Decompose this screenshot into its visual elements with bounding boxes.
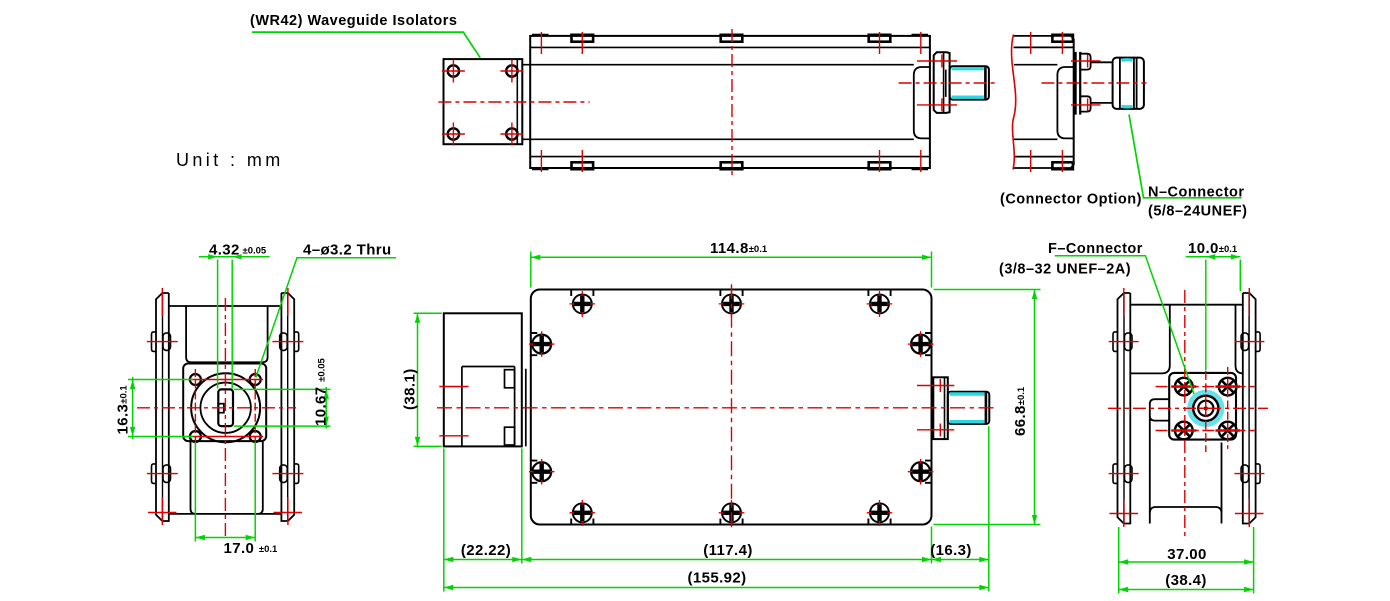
connector center mark: [1198, 401, 1213, 416]
ear top-right slot: [280, 333, 288, 351]
svg-text:(Connector Option): (Connector Option): [1000, 192, 1142, 208]
right view ear TL slot: [1125, 333, 1133, 351]
svg-text:4.32: 4.32: [209, 242, 240, 259]
screw top1: [570, 290, 596, 318]
N connector stem: [1091, 62, 1113, 103]
body plan outline: [531, 290, 932, 525]
top web: [169, 305, 282, 307]
dim 4.32 extension lines: [218, 260, 233, 389]
option rail tab top: [1052, 35, 1073, 42]
connector marks plan: [917, 379, 954, 437]
arrows 38.1: [415, 313, 420, 323]
barrel end plan: [985, 393, 988, 423]
rail end marks: [162, 288, 288, 525]
right view right rail: [1243, 293, 1256, 524]
rail tab 2 top: [721, 35, 743, 42]
svg-text:N–Connector: N–Connector: [1148, 185, 1245, 201]
bolt row centerlines: [188, 380, 263, 437]
end cap: [914, 67, 930, 138]
screw top3: [867, 290, 893, 318]
flange face line: [462, 367, 515, 447]
lower body right edge: [1221, 443, 1223, 524]
flange bolt bottom-left: [448, 128, 459, 139]
cyan thread plan top: [950, 392, 985, 395]
dim 114.8: [531, 252, 932, 288]
bottom web: [169, 513, 282, 515]
F connector barrel end: [984, 67, 987, 98]
N connector nut lines: [1120, 58, 1137, 109]
dim line 155.92: [444, 587, 989, 589]
N cyan highlight top: [1121, 58, 1132, 62]
arrows 114.8: [531, 255, 541, 260]
dim 37.00 and 38.4: [1119, 527, 1254, 594]
right view ear BL bump: [1113, 464, 1118, 484]
ear bottom-right bump: [294, 464, 299, 484]
flange marks plan: [439, 387, 468, 436]
arrows 155.92: [444, 585, 454, 590]
screw bottom3: [867, 500, 893, 526]
waveguide aperture: [218, 389, 233, 426]
plan vertical centerline: [731, 284, 733, 531]
F connector flange step: [944, 52, 946, 113]
arrows 16.3: [130, 380, 135, 390]
svg-text:Unit : mm: Unit : mm: [176, 150, 284, 170]
F connector inner circle: [1198, 401, 1213, 416]
ear top-right bump: [294, 332, 299, 352]
svg-text:10.67 ±0.05: 10.67 ±0.05: [313, 357, 330, 426]
leader 4-dia3.2: [256, 258, 396, 378]
right view ear BL slot: [1125, 465, 1133, 483]
arrows 17.0: [195, 535, 205, 540]
N cyan highlight bottom: [1121, 105, 1132, 109]
screw bottom1: [570, 500, 596, 526]
rail tab 3 top: [869, 35, 891, 42]
waveguide flange square: [183, 364, 266, 442]
plan main axis: [437, 407, 996, 409]
rail tab 3 bottom: [869, 162, 891, 169]
ear bottom-right slot: [280, 465, 288, 483]
screw rows: [1156, 387, 1255, 431]
svg-text:4–ø3.2 Thru: 4–ø3.2 Thru: [303, 242, 392, 259]
option flange marks: [1071, 55, 1101, 112]
flange screw BL: [1175, 422, 1193, 440]
rail foot marks: [148, 512, 302, 514]
leader F-Connector: [1055, 256, 1194, 394]
flange bolt top-right: [506, 65, 517, 76]
rail end lips: [532, 35, 928, 169]
option connector axis: [1041, 82, 1146, 84]
arrows 10.0: [1206, 254, 1216, 259]
leader line N-Connector: [1129, 115, 1242, 198]
connector flange marks: [917, 55, 957, 112]
svg-text:(155.92): (155.92): [687, 570, 746, 587]
flange tab lower: [505, 427, 515, 445]
flange bolt hole TL: [190, 374, 201, 385]
right view left rail mid: [1123, 294, 1125, 524]
flange screw TR: [1219, 378, 1237, 396]
svg-text:(38.4): (38.4): [1165, 572, 1207, 589]
centerline waveguide axis: [438, 101, 589, 103]
left rail: [156, 293, 169, 521]
dim 10.0: [1186, 257, 1241, 371]
neck to body: [522, 65, 530, 140]
bolt column centerlines: [195, 369, 255, 446]
dim 17.0: [195, 442, 255, 542]
ear top-left slot: [163, 333, 171, 351]
screw right-upper: [908, 331, 934, 357]
right view horizontal centerline: [1108, 407, 1268, 409]
F connector barrel: [950, 66, 989, 99]
svg-text:(16.3): (16.3): [930, 542, 972, 559]
bolt cross marks flange: [442, 60, 524, 146]
body outline with rails: [530, 36, 930, 168]
screw left-lower: [529, 459, 555, 485]
F connector barrel plan: [948, 392, 990, 424]
right view rail end marks: [1124, 288, 1250, 527]
svg-text:(WR42) Waveguide Isolators: (WR42) Waveguide Isolators: [250, 13, 457, 29]
svg-text:114.8±0.1: 114.8±0.1: [710, 240, 768, 257]
F connector flange step plan: [944, 377, 946, 439]
svg-text:±0.05: ±0.05: [243, 246, 267, 257]
arrows 16.3 plan: [932, 557, 942, 562]
screw right-lower: [908, 459, 934, 485]
arrows 10.67: [324, 389, 329, 399]
body top/bottom lines: [530, 65, 914, 140]
left view vertical centerline: [224, 298, 226, 536]
option end cap: [1057, 67, 1073, 138]
rail tab 1 top: [572, 35, 594, 42]
right view left rail: [1118, 293, 1131, 524]
centerline body vertical: [731, 29, 733, 175]
break line: [1012, 35, 1016, 170]
right view rail foot marks: [1110, 513, 1264, 515]
lower body box: [191, 441, 263, 514]
right view ear TR slot: [1241, 333, 1249, 351]
right view ear BR slot: [1241, 465, 1249, 483]
arrows 4.32: [208, 254, 218, 259]
flange bolt bottom-right: [506, 128, 517, 139]
screw center bold marks: [1172, 387, 1241, 431]
ridge notch: [218, 404, 224, 413]
right rail: [281, 293, 294, 521]
right view top web: [1130, 304, 1243, 306]
cyan thread highlight top: [952, 67, 984, 70]
svg-text:(22.22): (22.22): [461, 542, 511, 559]
svg-text:(117.4): (117.4): [703, 542, 753, 559]
screw column right: [1227, 367, 1229, 449]
right view ear marks: [1109, 342, 1265, 474]
dim 38.1: [414, 313, 442, 446]
option right edge: [1073, 39, 1075, 165]
svg-text:F–Connector: F–Connector: [1048, 241, 1143, 257]
connector vertical centerline: [1205, 371, 1207, 452]
flange bolt hole TR: [250, 374, 261, 385]
left flange side view: [444, 313, 522, 446]
svg-text:(5/8–24UNEF): (5/8–24UNEF): [1148, 204, 1247, 220]
right view ear BR bump: [1256, 464, 1261, 484]
screw bottom2: [719, 500, 745, 526]
dim 10.67: [234, 387, 331, 429]
F flange square: [1169, 373, 1236, 440]
rail screw marks bottom: [541, 150, 920, 172]
boss outer circle: [191, 373, 260, 442]
centerline connector axis: [899, 82, 996, 84]
ear bottom-left slot: [163, 465, 171, 483]
flange bolt hole BR: [250, 431, 261, 442]
svg-text:37.00: 37.00: [1167, 546, 1207, 563]
option rails top: [1014, 36, 1074, 48]
svg-text:(38.1): (38.1): [402, 368, 419, 410]
dim line 22.22 117.4 16.3: [444, 559, 989, 561]
flange screw BR: [1219, 422, 1237, 440]
cyan thread highlight bottom: [952, 95, 984, 98]
svg-text:66.8±0.1: 66.8±0.1: [1012, 386, 1029, 436]
arrows 37.00: [1119, 559, 1129, 564]
F connector flange plan: [933, 377, 948, 439]
rail tab 2 bottom: [721, 162, 743, 169]
ear marks: [147, 342, 304, 474]
F connector flange (top view): [934, 52, 950, 113]
svg-text:16.3±0.1: 16.3±0.1: [115, 385, 132, 435]
rail tab 1 bottom: [572, 162, 594, 169]
leader line WR42: [252, 32, 480, 58]
N flange tab top: [1080, 54, 1090, 70]
right view ear TR bump: [1256, 332, 1261, 352]
waveguide channel notch: [1150, 399, 1169, 523]
screw left-upper: [529, 331, 555, 357]
neck line: [525, 369, 527, 447]
flange bolt hole BL: [190, 431, 201, 442]
right rail mid line: [287, 294, 289, 521]
svg-text:10.0±0.1: 10.0±0.1: [1188, 240, 1238, 257]
right view right rail mid: [1248, 294, 1250, 524]
option rail tab bottom: [1052, 162, 1073, 169]
arrows 66.8: [1032, 290, 1037, 300]
left rail mid line: [162, 294, 164, 521]
bottom extension lines: [444, 426, 989, 591]
flange screw TL: [1175, 378, 1193, 396]
left view horizontal centerline: [137, 407, 296, 409]
dim 16.3: [128, 377, 193, 439]
arrows 22.22: [444, 557, 454, 562]
flange tab upper: [505, 370, 515, 388]
rail inner lines: [530, 47, 930, 156]
arrows 38.4: [1119, 587, 1129, 592]
ear top-left bump: [152, 332, 157, 352]
boss inner circle: [200, 383, 250, 433]
ear bottom-left bump: [152, 464, 157, 484]
bottom web: [1150, 507, 1222, 513]
neck upper: [1130, 305, 1243, 374]
svg-text:(3/8–32 UNEF–2A): (3/8–32 UNEF–2A): [999, 262, 1131, 278]
right view vertical centerline: [1184, 290, 1186, 537]
upper body box: [186, 306, 268, 362]
screws: [529, 290, 934, 527]
N flange tab bottom: [1080, 96, 1090, 111]
option rails bottom: [1014, 157, 1074, 168]
screw top2: [719, 290, 745, 318]
F connector center pin: [1204, 406, 1208, 410]
N connector body: [1113, 58, 1144, 109]
arrows 117.4: [522, 557, 532, 562]
flange bolt top-left: [448, 65, 459, 76]
dim 66.8: [934, 290, 1041, 525]
option body lines: [1014, 65, 1057, 140]
svg-text:17.0 ±0.1: 17.0 ±0.1: [224, 540, 279, 557]
rail screw marks top: [541, 32, 920, 54]
F connector outer circle: [1193, 396, 1218, 421]
dim 4.32 line: [199, 256, 270, 258]
N connector flange plate: [1076, 52, 1081, 115]
waveguide flange (top view): [444, 59, 523, 144]
F connector cyan ring: [1190, 392, 1222, 424]
option rail screw marks: [1031, 32, 1063, 172]
flange inner face line: [516, 59, 518, 144]
right view ear TL bump: [1113, 332, 1118, 352]
cyan thread plan bottom: [950, 420, 985, 423]
